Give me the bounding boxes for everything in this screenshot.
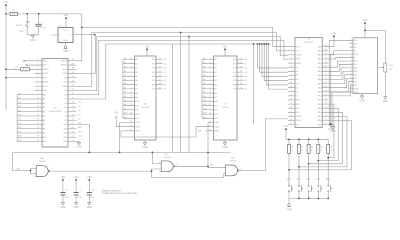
svg-text:R6: R6: [320, 147, 322, 149]
svg-text:D1: D1: [245, 63, 247, 65]
svg-text:A1: A1: [124, 61, 126, 64]
svg-text:SOB: SOB: [63, 69, 68, 71]
svg-text:D3: D3: [65, 103, 69, 105]
svg-text:0.1uF: 0.1uF: [90, 197, 96, 199]
svg-text:CEB: CEB: [135, 122, 140, 124]
svg-text:D5: D5: [78, 110, 80, 112]
svg-text:39: 39: [72, 63, 74, 65]
svg-text:DB3: DB3: [354, 71, 358, 73]
svg-text:14: 14: [37, 114, 39, 116]
svg-text:PA4: PA4: [318, 70, 323, 73]
svg-text:17: 17: [240, 79, 242, 81]
svg-text:18: 18: [159, 83, 161, 85]
svg-text:OEB: OEB: [135, 126, 140, 128]
svg-text:R4: R4: [301, 147, 303, 149]
svg-text:1k: 1k: [301, 150, 303, 152]
svg-text:D6: D6: [78, 114, 80, 116]
svg-text:A14: A14: [135, 117, 140, 120]
svg-text:36: 36: [325, 62, 327, 64]
svg-text:U7: U7: [224, 104, 228, 106]
svg-text:C4: C4: [92, 190, 94, 192]
svg-text:RDY: RDY: [43, 65, 48, 67]
svg-text:23: 23: [130, 104, 132, 106]
svg-text:GND: GND: [286, 210, 291, 212]
svg-text:1k: 1k: [330, 150, 332, 152]
svg-text:IO4: IO4: [152, 76, 156, 78]
svg-text:GND: GND: [222, 147, 227, 149]
svg-text:A10: A10: [203, 99, 206, 102]
svg-text:+5V: +5V: [87, 175, 92, 179]
svg-text:RWB: RWB: [296, 63, 301, 65]
svg-text:32: 32: [72, 93, 74, 95]
svg-text:A1: A1: [214, 62, 217, 65]
svg-text:13: 13: [240, 66, 242, 68]
svg-text:A2: A2: [18, 101, 20, 104]
svg-text:CA1: CA1: [317, 45, 322, 48]
svg-text:13: 13: [159, 66, 161, 68]
svg-text:RWB: RWB: [197, 131, 202, 133]
svg-text:DB4: DB4: [354, 75, 358, 77]
svg-text:10: 10: [37, 97, 39, 99]
svg-text:0.1uF: 0.1uF: [41, 27, 47, 29]
svg-text:CA2: CA2: [317, 50, 322, 53]
svg-text:GND: GND: [328, 129, 333, 131]
svg-text:D4: D4: [78, 106, 80, 108]
svg-text:21: 21: [325, 123, 327, 125]
svg-text:5: 5: [351, 53, 352, 55]
svg-text:A12: A12: [135, 109, 140, 112]
svg-text:D4: D4: [65, 107, 69, 109]
svg-text:37: 37: [325, 57, 327, 59]
svg-text:D0: D0: [245, 59, 247, 61]
svg-text:D2: D2: [65, 99, 69, 101]
svg-text:6: 6: [130, 75, 131, 77]
svg-text:RESB: RESB: [296, 116, 302, 118]
svg-text:A14: A14: [63, 127, 68, 130]
svg-text:E: E: [354, 57, 356, 59]
svg-text:0.1uF: 0.1uF: [64, 197, 70, 199]
svg-text:A9: A9: [135, 96, 138, 99]
svg-text:40: 40: [325, 45, 327, 47]
svg-text:2: 2: [209, 108, 210, 110]
svg-text:31: 31: [72, 97, 74, 99]
svg-text:DB2: DB2: [354, 68, 358, 70]
svg-text:GND: GND: [142, 147, 147, 149]
svg-text:VDD: VDD: [354, 43, 358, 45]
svg-text:17: 17: [37, 127, 39, 129]
svg-text:W65C02S6P: W65C02S6P: [49, 111, 62, 113]
svg-text:A4: A4: [43, 110, 46, 113]
svg-text:U4C: U4C: [164, 154, 169, 156]
svg-text:W65C22: W65C22: [305, 42, 314, 44]
svg-text:RS2: RS2: [296, 108, 301, 110]
svg-text:VCC: VCC: [296, 124, 301, 126]
svg-text:1k: 1k: [320, 150, 322, 152]
svg-text:D6: D6: [296, 92, 300, 94]
svg-text:10: 10: [209, 58, 211, 60]
svg-text:D0: D0: [296, 67, 300, 69]
svg-text:33: 33: [325, 74, 327, 76]
svg-text:IO0: IO0: [233, 59, 237, 61]
svg-text:12: 12: [34, 164, 36, 166]
svg-text:35: 35: [325, 66, 327, 68]
svg-text:PB3: PB3: [317, 108, 322, 110]
svg-text:16: 16: [37, 123, 39, 125]
svg-text:1: 1: [130, 117, 131, 119]
svg-text:19: 19: [290, 119, 292, 121]
svg-text:SW2: SW2: [287, 179, 291, 181]
svg-text:A9: A9: [203, 95, 205, 98]
svg-text:D5: D5: [245, 80, 247, 82]
svg-text:PHI2: PHI2: [63, 73, 68, 75]
svg-text:9: 9: [159, 162, 160, 164]
svg-text:9: 9: [209, 62, 210, 64]
svg-text:R1: R1: [12, 10, 15, 12]
svg-text:A11: A11: [203, 103, 206, 106]
svg-text:10: 10: [159, 172, 161, 174]
svg-text:BE: BE: [64, 77, 67, 79]
svg-text:25: 25: [209, 92, 211, 94]
svg-text:A5: A5: [124, 78, 126, 81]
svg-text:A9: A9: [18, 130, 20, 133]
svg-text:CS1: CS1: [296, 51, 301, 53]
svg-text:A13: A13: [214, 113, 219, 116]
svg-text:9: 9: [351, 66, 352, 68]
svg-text:11: 11: [37, 102, 39, 104]
svg-text:GND: GND: [64, 40, 69, 42]
svg-text:13: 13: [34, 176, 36, 178]
svg-text:3: 3: [130, 87, 131, 89]
svg-text:38: 38: [72, 68, 74, 70]
svg-text:A15: A15: [78, 122, 81, 125]
svg-text:24: 24: [72, 127, 74, 129]
svg-text:2: 2: [37, 63, 38, 65]
svg-text:18: 18: [290, 115, 292, 117]
svg-text:11: 11: [51, 168, 53, 170]
svg-text:9: 9: [37, 93, 38, 95]
svg-text:15: 15: [37, 119, 39, 121]
svg-text:PB1: PB1: [317, 100, 322, 102]
svg-text:include at least one per power: include at least one per power rail: [102, 192, 137, 195]
svg-text:DB5: DB5: [354, 78, 358, 80]
svg-text:12: 12: [37, 106, 39, 108]
svg-text:IO5: IO5: [233, 80, 237, 82]
svg-text:4: 4: [351, 49, 352, 51]
svg-text:PB2: PB2: [317, 104, 322, 106]
svg-text:A11: A11: [214, 104, 218, 107]
svg-text:3: 3: [290, 53, 291, 55]
svg-text:A15: A15: [17, 167, 20, 170]
svg-text:CB2: CB2: [317, 92, 322, 94]
svg-text:8: 8: [37, 89, 38, 91]
svg-text:D7: D7: [296, 96, 300, 98]
svg-text:IO3: IO3: [152, 72, 156, 74]
svg-text:A1: A1: [43, 98, 46, 101]
svg-text:+5V: +5V: [363, 18, 368, 22]
svg-text:A11: A11: [135, 104, 139, 107]
svg-text:IO1: IO1: [152, 63, 156, 65]
svg-text:6: 6: [241, 168, 242, 170]
svg-text:A11: A11: [18, 139, 21, 142]
svg-text:18: 18: [37, 131, 39, 133]
svg-text:37: 37: [72, 72, 74, 74]
svg-text:PB7: PB7: [317, 124, 322, 126]
svg-text:D7: D7: [164, 89, 166, 91]
svg-text:A8: A8: [214, 92, 217, 95]
svg-text:RS0: RS0: [296, 100, 301, 102]
svg-text:NMIB: NMIB: [43, 82, 49, 84]
svg-text:IRQB: IRQB: [43, 73, 49, 75]
svg-text:PB0: PB0: [317, 96, 322, 98]
svg-text:A3: A3: [214, 71, 217, 74]
svg-text:4: 4: [290, 57, 291, 59]
svg-text:V0: V0: [354, 47, 356, 49]
svg-text:A2: A2: [43, 102, 46, 105]
svg-text:PA5: PA5: [318, 74, 323, 77]
svg-text:+5V: +5V: [74, 175, 79, 179]
svg-text:27: 27: [72, 114, 74, 116]
svg-text:A0: A0: [203, 57, 205, 60]
svg-text:39: 39: [325, 49, 327, 51]
svg-text:IO6: IO6: [233, 84, 237, 86]
svg-text:A14: A14: [78, 126, 81, 129]
svg-text:WEB: WEB: [214, 131, 219, 133]
svg-text:13: 13: [37, 110, 39, 112]
svg-text:6: 6: [209, 75, 210, 77]
svg-text:18: 18: [240, 83, 242, 85]
svg-text:A14: A14: [210, 163, 213, 166]
svg-text:VCC: VCC: [64, 30, 68, 32]
svg-text:A14: A14: [214, 117, 219, 120]
svg-text:IO1: IO1: [233, 63, 237, 65]
svg-text:25: 25: [72, 123, 74, 125]
svg-text:A7: A7: [214, 88, 217, 91]
svg-text:SW5: SW5: [316, 179, 320, 181]
svg-text:RV1: RV1: [389, 65, 393, 67]
svg-text:CS2B: CS2B: [296, 55, 302, 57]
svg-text:23: 23: [325, 115, 327, 117]
svg-text:A7: A7: [203, 86, 205, 89]
svg-text:27: 27: [130, 129, 132, 131]
svg-text:A1: A1: [135, 62, 138, 65]
svg-text:GND: GND: [87, 207, 92, 209]
svg-text:33: 33: [72, 89, 74, 91]
svg-text:25: 25: [130, 92, 132, 94]
svg-text:25: 25: [325, 107, 327, 109]
svg-text:26: 26: [325, 103, 327, 105]
svg-text:GND: GND: [60, 207, 65, 209]
svg-text:12: 12: [240, 62, 242, 64]
svg-text:RS3: RS3: [296, 112, 301, 114]
svg-text:SYNC: SYNC: [43, 86, 49, 88]
svg-text:D3: D3: [245, 72, 247, 74]
svg-text:A5: A5: [214, 79, 217, 82]
svg-text:PHI1O: PHI1O: [43, 69, 50, 71]
svg-text:+5V: +5V: [114, 113, 119, 115]
svg-text:PB5: PB5: [317, 116, 322, 118]
svg-text:14: 14: [350, 84, 352, 86]
svg-text:10: 10: [290, 82, 292, 84]
svg-text:22: 22: [325, 119, 327, 121]
svg-text:VDD: VDD: [43, 90, 48, 92]
svg-text:7: 7: [290, 70, 291, 72]
svg-text:D4: D4: [245, 76, 247, 78]
svg-text:VSS: VSS: [354, 40, 358, 42]
svg-text:A6: A6: [18, 118, 20, 121]
svg-text:D6: D6: [65, 116, 69, 118]
svg-text:74HC00: 74HC00: [39, 161, 47, 163]
svg-text:24.0M: 24.0M: [51, 35, 57, 37]
svg-text:+5V: +5V: [145, 45, 150, 49]
svg-text:19: 19: [159, 87, 161, 89]
svg-text:12: 12: [290, 90, 292, 92]
svg-text:26: 26: [130, 113, 132, 115]
svg-text:+5V: +5V: [284, 124, 289, 128]
svg-text:16: 16: [240, 75, 242, 77]
svg-text:D5: D5: [296, 87, 300, 89]
svg-text:A10: A10: [135, 100, 140, 103]
svg-text:A11: A11: [43, 140, 47, 143]
svg-text:D3: D3: [296, 79, 300, 81]
svg-text:10k: 10k: [389, 69, 392, 71]
svg-text:A0: A0: [214, 58, 217, 61]
svg-text:A13: A13: [78, 130, 81, 133]
svg-text:2: 2: [130, 108, 131, 110]
svg-text:20: 20: [37, 140, 39, 142]
svg-text:RESB: RESB: [62, 61, 68, 63]
svg-text:D0: D0: [164, 59, 166, 61]
svg-text:VSS: VSS: [296, 46, 301, 48]
svg-text:1k: 1k: [291, 150, 293, 152]
svg-text:9: 9: [290, 78, 291, 80]
svg-text:A2: A2: [203, 65, 205, 68]
svg-text:DB6: DB6: [354, 81, 358, 83]
svg-text:GND: GND: [76, 147, 81, 149]
svg-text:RWB: RWB: [62, 86, 67, 88]
svg-text:IO0: IO0: [152, 59, 156, 61]
svg-text:SW1: SW1: [19, 31, 24, 33]
svg-text:D6: D6: [164, 84, 166, 86]
svg-text:A12: A12: [78, 135, 81, 138]
svg-text:A3: A3: [203, 70, 205, 73]
svg-text:MLB: MLB: [43, 77, 48, 79]
svg-text:40: 40: [72, 59, 74, 61]
svg-text:A13: A13: [135, 113, 140, 116]
svg-text:A0: A0: [18, 92, 20, 95]
svg-text:IO2: IO2: [152, 68, 156, 70]
svg-text:IO7: IO7: [233, 89, 237, 91]
svg-text:PA1: PA1: [318, 58, 323, 61]
svg-text:16: 16: [350, 91, 352, 93]
svg-text:A2: A2: [135, 67, 138, 70]
svg-text:A15: A15: [63, 123, 68, 126]
svg-text:+5V: +5V: [332, 32, 337, 36]
svg-text:28C256: 28C256: [141, 107, 149, 109]
svg-text:34: 34: [72, 85, 74, 87]
svg-text:A4: A4: [214, 75, 217, 78]
svg-text:Bypass capacitors: Bypass capacitors: [102, 189, 121, 192]
svg-text:14: 14: [290, 98, 292, 100]
svg-text:6: 6: [290, 66, 291, 68]
svg-text:29: 29: [325, 90, 327, 92]
svg-text:30: 30: [325, 86, 327, 88]
svg-text:21: 21: [72, 140, 74, 142]
svg-text:A9: A9: [124, 95, 126, 98]
svg-text:PA2: PA2: [318, 62, 323, 65]
svg-text:7: 7: [37, 85, 38, 87]
svg-text:A13: A13: [124, 112, 127, 115]
svg-text:22: 22: [209, 125, 211, 127]
svg-text:4: 4: [209, 83, 210, 85]
svg-text:D3: D3: [78, 102, 80, 104]
svg-text:RS1: RS1: [296, 104, 301, 106]
svg-text:11: 11: [240, 58, 242, 60]
svg-text:D2: D2: [164, 68, 166, 70]
svg-text:7: 7: [351, 60, 352, 62]
svg-text:D7: D7: [245, 89, 247, 91]
svg-text:8: 8: [130, 66, 131, 68]
svg-text:5: 5: [130, 79, 131, 81]
svg-text:D2: D2: [296, 75, 300, 77]
svg-text:A0: A0: [43, 93, 46, 96]
svg-text:A11: A11: [124, 103, 127, 106]
svg-text:8: 8: [351, 63, 352, 65]
svg-text:D6: D6: [245, 84, 247, 86]
svg-text:LEDK: LEDK: [354, 92, 359, 94]
svg-text:35: 35: [72, 80, 74, 82]
svg-text:16: 16: [290, 107, 292, 109]
svg-text:C3: C3: [79, 190, 81, 192]
svg-text:PA6: PA6: [318, 78, 323, 81]
svg-text:A1: A1: [203, 61, 205, 64]
svg-text:DB0: DB0: [354, 61, 358, 63]
svg-text:27: 27: [325, 98, 327, 100]
svg-text:A10: A10: [43, 136, 48, 139]
svg-text:8: 8: [290, 74, 291, 76]
svg-text:10: 10: [130, 58, 132, 60]
svg-text:A8: A8: [18, 126, 20, 129]
svg-text:10: 10: [350, 70, 352, 72]
svg-text:A4: A4: [135, 75, 138, 78]
svg-text:11: 11: [290, 86, 292, 88]
svg-text:D3: D3: [164, 72, 166, 74]
svg-text:34: 34: [325, 70, 327, 72]
svg-text:D4: D4: [296, 83, 300, 85]
svg-text:R3: R3: [291, 147, 293, 149]
svg-text:PHI2: PHI2: [296, 59, 301, 61]
svg-text:A3: A3: [43, 106, 46, 109]
svg-text:+5V: +5V: [61, 175, 66, 179]
svg-text:A8: A8: [203, 91, 205, 94]
svg-text:O: O: [70, 34, 72, 36]
svg-text:28: 28: [72, 110, 74, 112]
svg-text:PB4: PB4: [317, 112, 322, 114]
svg-text:A5: A5: [43, 115, 46, 118]
svg-text:LEDA: LEDA: [354, 87, 359, 90]
svg-text:74HC00: 74HC00: [163, 157, 171, 159]
svg-text:1: 1: [290, 45, 291, 47]
svg-text:A3: A3: [18, 105, 20, 108]
svg-text:DB1: DB1: [354, 64, 358, 66]
svg-text:19: 19: [37, 136, 39, 138]
svg-text:A9: A9: [214, 96, 217, 99]
svg-text:A6: A6: [214, 83, 217, 86]
svg-text:15: 15: [350, 87, 352, 89]
svg-text:+5V: +5V: [223, 45, 228, 49]
svg-text:C2: C2: [66, 190, 68, 192]
svg-text:A12: A12: [124, 107, 127, 110]
svg-text:D0: D0: [65, 90, 69, 92]
